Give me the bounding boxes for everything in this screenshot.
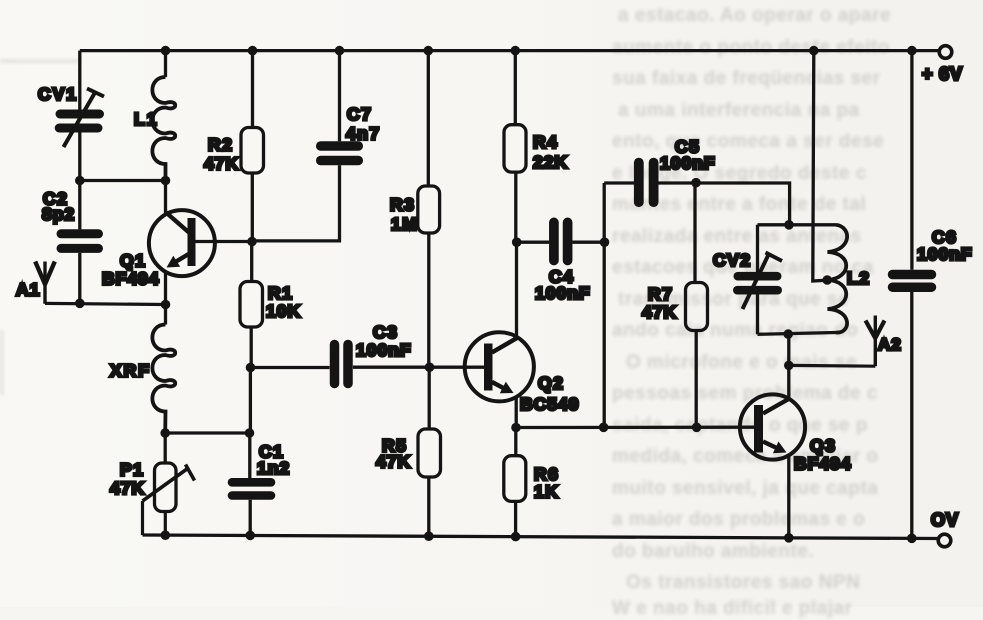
node junction dot (79.8,180.5): [75, 176, 85, 186]
resistor R2: [241, 128, 264, 174]
svg-text:1K: 1K: [534, 482, 559, 502]
transistor Q2: [465, 332, 534, 401]
node junction dot (827.2,280) L2 tap: [822, 275, 832, 285]
node junction dot (250.5,367.5): [246, 363, 256, 373]
node CV1 label: [38, 84, 78, 104]
node R7 label: [642, 284, 677, 322]
node junction dot (428.3,50.6): [424, 46, 434, 56]
node Q3 label: [794, 436, 852, 474]
node C7 label: [346, 104, 381, 144]
capacitor C6: [893, 275, 932, 288]
wire R7 bottom: [695, 331, 698, 428]
wire supply tap to L2 center: [813, 51, 827, 281]
svg-text:R4: R4: [533, 132, 558, 152]
node junction dot (165.5,50.6): [161, 46, 171, 56]
svg-text:47K: 47K: [204, 154, 239, 174]
node junction dot (696.6,427.3): [692, 423, 702, 433]
wire collector node to C4: [517, 241, 549, 244]
svg-text:BC549: BC549: [520, 394, 579, 414]
transistor Q1: [149, 210, 215, 276]
svg-text:C3: C3: [373, 322, 398, 342]
wire Q2 collector: [492, 242, 516, 351]
wire junction to L1 bottom: [80, 179, 166, 182]
wire tank top: [758, 223, 837, 226]
wire L1 top: [164, 51, 167, 77]
node C2 label: [42, 189, 75, 225]
wire R1 to C3 node: [250, 327, 253, 368]
resistor R5: [418, 429, 441, 477]
node R5 label: [376, 436, 411, 472]
wire left branch vertical (CV1/C2 column): [78, 51, 81, 304]
node C1 label: [257, 442, 290, 479]
node C5 label: [660, 137, 716, 174]
svg-text:OV: OV: [931, 510, 959, 530]
svg-text:R3: R3: [390, 195, 415, 215]
svg-text:XRF: XRF: [110, 361, 151, 381]
capacitor C5: [639, 163, 654, 203]
svg-text:R7: R7: [648, 284, 673, 304]
svg-text:R2: R2: [208, 135, 233, 155]
svg-text:1M: 1M: [391, 214, 418, 234]
node junction dot (515.3,50.6): [511, 46, 521, 56]
wire Q3 emitter to rail: [787, 455, 790, 538]
wire C3 to Q2 base: [353, 366, 484, 369]
node Q1 label: [102, 251, 160, 289]
capacitor C3: [335, 345, 349, 384]
node junction dot (79.8,303.3): [75, 299, 85, 309]
wire C5 to tank feed corner: [658, 183, 789, 225]
svg-text:Q3: Q3: [810, 436, 836, 456]
node R6 label: [534, 464, 559, 502]
wire R2 to base node: [251, 173, 254, 242]
svg-text:L2: L2: [847, 268, 870, 288]
wire rail to R4: [514, 51, 517, 125]
node R2 label: [204, 135, 239, 174]
node C3 label: [356, 322, 412, 360]
node C4 label: [535, 267, 591, 304]
wire divider node to R5: [428, 367, 431, 429]
node XRF label: [110, 361, 151, 381]
wire rail to C7: [338, 51, 341, 142]
node junction dot (339.5,50.6): [335, 46, 345, 56]
wire R6 top: [514, 428, 517, 456]
wire Q2 emitter down: [515, 397, 518, 428]
wire emitter/base wire Q2 to Q3: [516, 426, 754, 430]
wire emitter to XRF: [164, 305, 167, 325]
svg-text:P1: P1: [120, 460, 144, 480]
wire C6 to rail: [910, 292, 913, 538]
wire bottom 0V rail: [143, 535, 939, 539]
wire R4 to collector node: [514, 172, 517, 242]
svg-text:10K: 10K: [266, 301, 301, 321]
terminal 0V: [938, 534, 951, 547]
svg-text:100nF: 100nF: [356, 340, 412, 360]
node junction dot (516,427.5): [511, 423, 521, 433]
node junction dot (694.6,183): [691, 178, 701, 188]
svg-text:A1: A1: [16, 280, 40, 300]
svg-text:47K: 47K: [110, 478, 145, 498]
capacitor C1: [232, 482, 271, 495]
svg-text:C7: C7: [347, 104, 372, 124]
svg-text:CV1: CV1: [38, 84, 78, 104]
terminal +6V: [939, 46, 952, 59]
node junction dot (516.7,242.2): [512, 237, 522, 247]
svg-text:CV2: CV2: [713, 250, 752, 270]
node junction dot (911.8,538.3): [907, 534, 917, 544]
node junction dot (813.8,50.6): [809, 46, 819, 56]
node L1 label: [134, 109, 158, 129]
wire Q1 emitter down: [164, 272, 167, 305]
wire Q3 collector up: [787, 365, 790, 399]
wire C4 to tap column: [572, 241, 604, 244]
node junction dot (250.2,535.4): [245, 531, 255, 541]
node R3 label: [390, 195, 418, 235]
wire down to C1: [248, 433, 251, 478]
svg-text:47K: 47K: [376, 452, 411, 472]
resistor R6: [504, 456, 526, 502]
svg-text:+: +: [922, 64, 934, 84]
node junction dot (165.3,535.2): [161, 530, 171, 540]
node junction dot (165.2,433): [160, 428, 170, 438]
transistor Q3: [740, 394, 805, 459]
node L2 label: [847, 268, 870, 288]
svg-text:100nF: 100nF: [917, 244, 973, 264]
node junction dot (429.5,367.2): [425, 362, 435, 372]
antenna A2: [866, 316, 885, 367]
wire tap column vertical: [603, 183, 606, 427]
capacitor C7: [321, 146, 359, 161]
wire rail to R2: [251, 51, 254, 128]
wire rail to R3: [427, 51, 430, 186]
node junction dot (252.5,50.6): [248, 46, 258, 56]
node A2 label: [878, 335, 902, 354]
wire R3 to divider node: [427, 233, 430, 367]
wire base node to R1: [250, 242, 253, 282]
node +6V label: [922, 64, 963, 84]
svg-text:100nF: 100nF: [535, 283, 591, 303]
capacitor CV2: [737, 253, 782, 310]
resistor R3: [418, 186, 440, 233]
node C6 label: [917, 227, 973, 264]
svg-text:A2: A2: [878, 335, 902, 354]
node CV2 label: [713, 250, 752, 270]
wire rail to C6: [910, 51, 913, 270]
node junction dot (911.9,50.6): [907, 46, 917, 56]
svg-text:1n2: 1n2: [257, 458, 290, 478]
resistor R1: [240, 282, 263, 328]
node R1 label: [266, 283, 301, 321]
wire to P1: [164, 433, 167, 463]
potentiometer P1: [143, 463, 195, 535]
node junction dot (249.5,433): [245, 428, 255, 438]
wire Q1 base: [196, 240, 253, 243]
svg-text:6V: 6V: [939, 64, 963, 84]
svg-text:47K: 47K: [642, 302, 677, 322]
wire C3 node to C3: [251, 366, 330, 369]
wire corner to C5: [604, 181, 634, 184]
node junction dot (788.8,365.4): [784, 361, 794, 371]
svg-text:8p2: 8p2: [42, 204, 75, 224]
resistor R4: [504, 125, 526, 172]
node junction dot (165.5,304.5): [161, 300, 171, 310]
svg-text:BF494: BF494: [794, 454, 852, 474]
wire C7 bottom to base wire: [252, 165, 340, 241]
node junction dot (428.8,536.2): [424, 531, 434, 541]
node junction dot (788.2,334.1): [783, 329, 793, 339]
antenna A1: [35, 262, 55, 304]
wire collector node to tank bottom: [787, 334, 790, 365]
svg-text:R1: R1: [268, 283, 293, 303]
wire A2 feed: [789, 364, 876, 368]
svg-text:4n7: 4n7: [346, 124, 381, 144]
wire C1 to rail: [249, 500, 252, 536]
inductor L1: [152, 77, 175, 181]
wire R5 to rail: [427, 477, 430, 536]
wire Q1 collector: [164, 181, 167, 214]
node junction dot (788.8,537.8): [784, 533, 794, 543]
capacitor C2: [61, 234, 99, 249]
node junction dot (603.6,427.3): [599, 423, 609, 433]
node junction dot (604.5,242.2): [600, 237, 610, 247]
capacitor CV1: [59, 89, 104, 148]
svg-text:22K: 22K: [533, 152, 568, 172]
capacitor C4: [554, 222, 568, 260]
wire R7 top: [693, 183, 696, 283]
node junction dot (252,241.5): [247, 237, 257, 247]
svg-text:L1: L1: [134, 109, 158, 129]
node R4 label: [533, 132, 568, 172]
wire XRF bottom to C1 column: [165, 431, 249, 434]
svg-text:100nF: 100nF: [660, 153, 716, 173]
node junction dot (165.5,180.5): [161, 176, 171, 186]
node junction dot (789,224.8): [784, 220, 794, 230]
svg-text:Q1: Q1: [120, 251, 146, 271]
wire CV2 branch: [756, 225, 759, 334]
svg-text:Q2: Q2: [538, 373, 564, 393]
node OV label: [931, 510, 959, 530]
resistor R7: [686, 283, 708, 331]
wire R6 to rail: [514, 501, 517, 536]
inductor XRF: [152, 325, 175, 434]
wire A1 to emitter column: [45, 303, 165, 304]
node Q2 label: [520, 373, 579, 414]
wire C3 node down: [249, 368, 252, 434]
inductor L2: [828, 225, 848, 333]
node junction dot (515.6,536.6): [511, 532, 521, 542]
wire top +6V rail: [80, 49, 938, 52]
svg-text:BF494: BF494: [102, 269, 160, 289]
node A1 label: [16, 280, 40, 300]
node P1 label: [110, 460, 145, 499]
wire tank bottom: [758, 333, 837, 335]
